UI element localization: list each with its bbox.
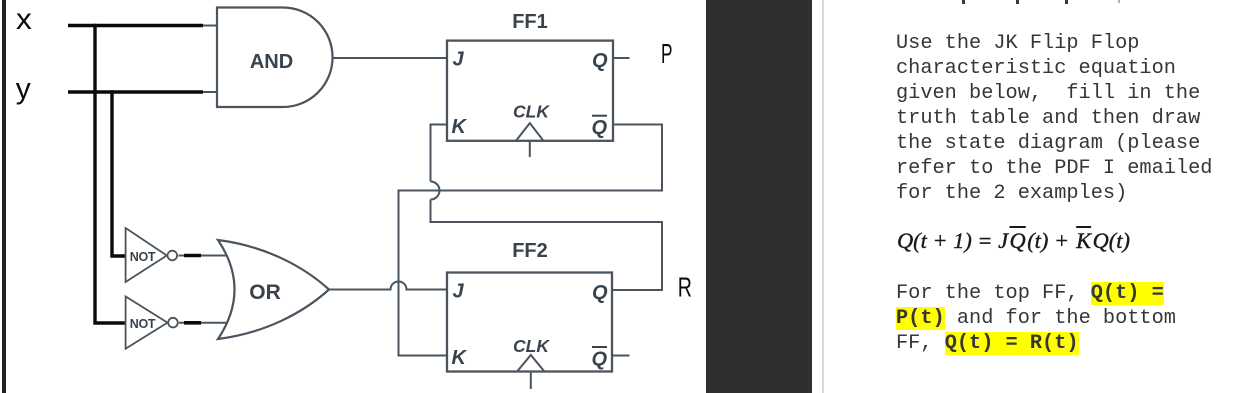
circuit schematic svg — [0, 0, 710, 393]
svg-text:FF1: FF1 — [512, 11, 548, 33]
AND gate U1 — [217, 8, 333, 108]
dark separator bar — [706, 0, 812, 393]
svg-text:NOT: NOT — [130, 250, 156, 264]
svg-text:Q: Q — [592, 50, 608, 72]
wire: OR output to FF2 J with hop over vertical — [329, 282, 447, 290]
svg-text:OR: OR — [249, 281, 281, 304]
svg-text:Q: Q — [592, 117, 608, 139]
light gray rule — [822, 0, 825, 393]
question text paragraph — [896, 31, 1212, 206]
node label x — [16, 3, 32, 36]
flip-flop FF1 — [447, 11, 613, 157]
NOT gate U3 (top inverter) — [126, 228, 178, 282]
wire: NOT1 output to OR top input — [179, 255, 231, 257]
wire: FF2 Qbar output stub — [612, 355, 630, 357]
svg-text:K: K — [452, 347, 468, 369]
svg-text:R: R — [678, 272, 692, 303]
node label y — [16, 73, 31, 106]
svg-text:CLK: CLK — [513, 102, 550, 122]
node label R — [678, 272, 692, 303]
node label P — [661, 38, 673, 69]
wire: NOT2 output to OR bottom input — [179, 322, 230, 324]
wire: input y horizontal — [68, 90, 218, 93]
svg-text:x: x — [16, 3, 32, 36]
svg-text:NOT: NOT — [130, 317, 156, 331]
wire: FF1 Qbar to FF2 K (right, down, left, down, right) — [399, 125, 663, 356]
svg-text:Q: Q — [592, 349, 608, 371]
flip-flop FF2 — [447, 240, 612, 389]
wire: x branch down to NOT2 input — [93, 24, 126, 323]
wire: FF1 Q output stub to P — [613, 57, 630, 59]
OR gate U2 — [218, 240, 329, 339]
svg-text:K: K — [452, 116, 468, 138]
answer text with highlights — [896, 281, 1176, 356]
wire: y branch down to NOT1 input — [110, 90, 126, 256]
svg-text:J: J — [453, 49, 465, 71]
wire: input x horizontal — [68, 24, 218, 27]
wire: AND output to FF1 J — [333, 57, 448, 59]
svg-text:CLK: CLK — [513, 336, 550, 356]
characteristic equation — [897, 228, 1130, 254]
clipped descenders of previous text line — [962, 0, 965, 4]
svg-text:y: y — [16, 73, 31, 106]
svg-text:P: P — [661, 38, 673, 69]
svg-text:AND: AND — [250, 51, 293, 73]
left page edge bar — [2, 0, 6, 393]
svg-text:J: J — [453, 281, 465, 303]
wire: FF2 Q to FF1 K with hop over horizontal — [431, 125, 663, 291]
svg-text:FF2: FF2 — [512, 240, 548, 262]
NOT gate U4 (bottom inverter) — [126, 297, 178, 349]
svg-text:Q: Q — [592, 282, 608, 304]
